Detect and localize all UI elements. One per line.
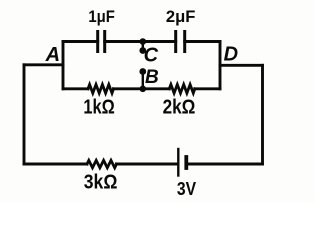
svg-text:D: D (224, 44, 238, 66)
svg-text:C: C (144, 44, 159, 66)
svg-text:1μF: 1μF (88, 8, 115, 26)
svg-text:2kΩ: 2kΩ (163, 97, 196, 119)
svg-text:1kΩ: 1kΩ (83, 97, 114, 119)
svg-text:3kΩ: 3kΩ (84, 172, 118, 194)
svg-text:3V: 3V (177, 179, 196, 199)
svg-text:2μF: 2μF (166, 8, 196, 26)
svg-text:A: A (45, 44, 60, 66)
svg-text:B: B (145, 67, 159, 88)
